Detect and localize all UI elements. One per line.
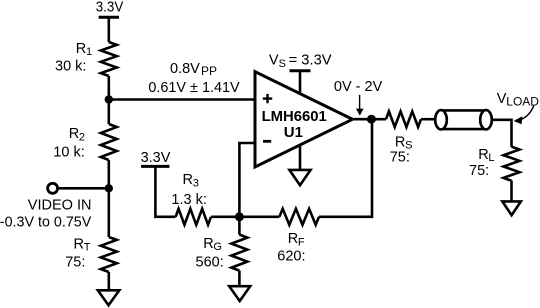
- value 75 ohm RL: [469, 163, 489, 179]
- label RS: [395, 134, 413, 151]
- svg-text:V: V: [497, 91, 507, 107]
- svg-text:G: G: [213, 241, 222, 253]
- resistor RT: [101, 237, 117, 272]
- label R3: [183, 172, 199, 189]
- value 620 ohm: [277, 249, 305, 265]
- op-amp U1 triangle: [255, 72, 353, 167]
- wire RT to ground: [108, 272, 111, 290]
- resistor RL: [504, 147, 520, 181]
- value 30 k ohm: [55, 59, 86, 75]
- resistor RG: [231, 235, 247, 271]
- svg-text:3.3V: 3.3V: [96, 0, 124, 15]
- label 0.61V +/- 1.41V: [148, 80, 240, 96]
- wire op-amp bottom to ground: [299, 145, 302, 171]
- svg-text:-0.3V to 0.75V: -0.3V to 0.75V: [0, 215, 92, 231]
- wire node A to op-amp non-inverting input: [109, 98, 255, 101]
- value 75 ohm RS: [390, 150, 410, 166]
- output node dot: [367, 115, 376, 124]
- label 0V - 2V: [334, 79, 383, 95]
- node A junction dot: [105, 95, 113, 103]
- svg-text:F: F: [298, 236, 305, 248]
- svg-text:620:: 620:: [277, 249, 305, 265]
- label R1: [76, 41, 92, 58]
- coax left ellipse: [435, 110, 447, 129]
- wire node C to RG: [238, 217, 241, 235]
- svg-text:0V - 2V: 0V - 2V: [334, 79, 383, 95]
- value 1.3 k ohm: [171, 192, 206, 208]
- wire RL to ground: [510, 181, 513, 202]
- svg-text:0.61V ± 1.41V: 0.61V ± 1.41V: [148, 80, 240, 96]
- svg-text:PP: PP: [201, 64, 217, 78]
- wire node C to RF: [239, 216, 279, 219]
- annotation arrow 0V-2V to output: [356, 95, 364, 116]
- wire R2 to junction B: [108, 160, 111, 237]
- wire op-amp output to RS: [353, 118, 387, 121]
- power rail 3.3V mid label: [141, 150, 171, 166]
- svg-text:U1: U1: [284, 124, 303, 141]
- svg-text:R: R: [74, 236, 84, 252]
- value 10 k ohm: [53, 145, 84, 161]
- svg-text:L: L: [488, 152, 494, 164]
- wire RF to output node: [319, 119, 372, 217]
- wire rail to R1: [108, 17, 111, 42]
- label 0.8Vpp: [170, 61, 217, 78]
- svg-text:75:: 75:: [390, 150, 410, 166]
- op-amp minus input sign: [263, 140, 271, 143]
- label RF: [288, 231, 305, 248]
- svg-text:3: 3: [193, 178, 199, 190]
- label RG: [203, 236, 222, 253]
- label -0.3V to 0.75V: [0, 215, 92, 231]
- svg-text:3.3V: 3.3V: [141, 150, 171, 166]
- svg-text:10 k:: 10 k:: [53, 145, 84, 161]
- svg-text:1: 1: [86, 46, 92, 58]
- wire VS bar to op-amp top: [299, 71, 302, 94]
- resistor R2: [101, 124, 117, 160]
- svg-text:T: T: [84, 242, 91, 254]
- svg-text:R: R: [478, 147, 488, 163]
- power bar 3.3V mid: [141, 165, 169, 168]
- label VIDEO IN: [28, 198, 92, 214]
- resistor RS: [386, 111, 421, 127]
- node C junction dot: [235, 212, 244, 221]
- wire R3 to node C: [211, 216, 239, 219]
- resistor RF: [279, 209, 319, 225]
- label R2: [69, 126, 85, 143]
- wire RS to coax: [421, 118, 436, 121]
- svg-text:1.3 k:: 1.3 k:: [171, 192, 206, 208]
- coax cable body lines: [441, 110, 486, 129]
- wire coax to load corner: [492, 120, 512, 147]
- annotation curved arrow VLOAD: [514, 106, 534, 125]
- resistor R1: [101, 42, 117, 76]
- wire RG to ground: [238, 271, 241, 286]
- power rail 3.3V top-left label: [96, 0, 124, 15]
- power bar VS: [290, 69, 311, 72]
- terminal VIDEO IN open circle: [48, 183, 58, 193]
- svg-text:30 k:: 30 k:: [55, 59, 86, 75]
- svg-text:VIDEO IN: VIDEO IN: [28, 198, 92, 214]
- op-amp plus input sign: [263, 94, 272, 103]
- ground under RL: [502, 201, 521, 215]
- svg-text:= 3.3V: = 3.3V: [289, 53, 332, 69]
- svg-text:0.8V: 0.8V: [170, 61, 200, 77]
- svg-text:R: R: [183, 172, 193, 188]
- label VS = 3.3V: [269, 53, 332, 70]
- label RL: [478, 147, 494, 164]
- coax right ellipse: [480, 110, 492, 129]
- value 560 ohm: [196, 254, 224, 270]
- wire R1 to node A: [108, 76, 111, 124]
- svg-text:LMH6601: LMH6601: [262, 108, 327, 125]
- wire node C to inverting input: [239, 143, 255, 217]
- value 75 ohm: [65, 254, 85, 270]
- label RT: [74, 236, 91, 253]
- label U1: [284, 124, 303, 141]
- svg-text:75:: 75:: [469, 163, 489, 179]
- svg-text:S: S: [279, 58, 286, 70]
- svg-text:R: R: [76, 41, 86, 57]
- svg-text:75:: 75:: [65, 254, 85, 270]
- svg-text:V: V: [269, 53, 279, 69]
- svg-text:R: R: [69, 126, 79, 142]
- ground under op-amp: [289, 170, 310, 185]
- svg-text:R: R: [288, 231, 298, 247]
- svg-text:560:: 560:: [196, 254, 224, 270]
- wire rail to R3: [155, 166, 175, 216]
- label VLOAD: [497, 91, 540, 108]
- resistor R3: [176, 209, 211, 225]
- ground under RT: [98, 290, 120, 305]
- svg-text:LOAD: LOAD: [506, 95, 539, 109]
- node B junction dot: [105, 184, 113, 192]
- power bar 3.3V top-left: [99, 16, 119, 19]
- wire VIDEO IN to junction B: [58, 187, 109, 190]
- svg-text:R: R: [395, 134, 405, 150]
- ground under RG: [229, 286, 250, 301]
- svg-text:2: 2: [79, 131, 85, 143]
- svg-text:R: R: [203, 236, 213, 252]
- label LMH6601: [262, 108, 327, 125]
